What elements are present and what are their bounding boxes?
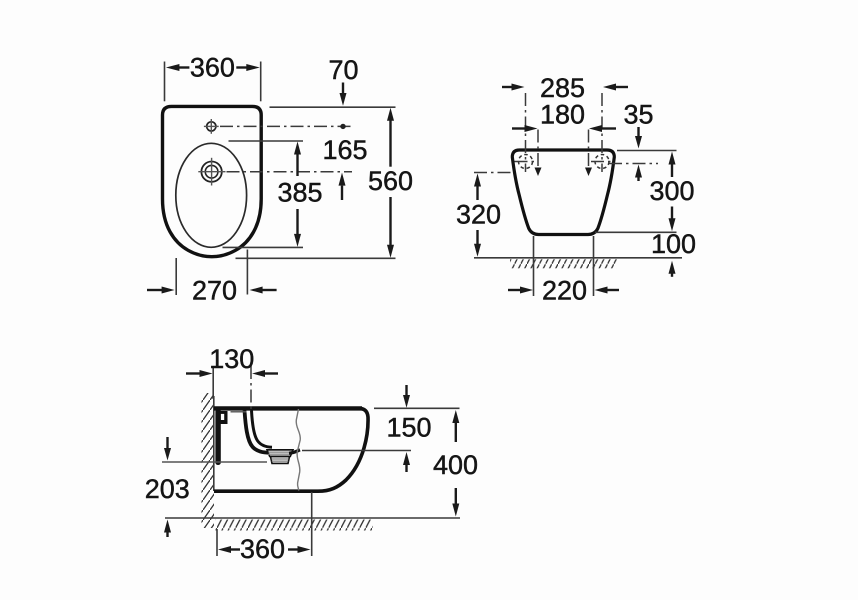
small mount hole [207,122,216,131]
dim 300 arrows [669,152,676,232]
dim 180 arrows [512,125,616,132]
svg-text:300: 300 [649,176,694,206]
dim 220 ext right [593,236,595,296]
dim 220 arrows [508,287,619,294]
dim 360 arrows [166,64,260,71]
ext line bowl top [229,140,304,142]
ext line tub top right [617,150,677,152]
dim 270 ext left [175,258,177,295]
dim 560 arrows [387,108,394,258]
svg-text:150: 150 [386,413,431,443]
svg-text:130: 130 [209,344,254,374]
dim 320 arrows [474,174,481,257]
small hole arrow left [535,168,542,177]
drain lower step [271,457,290,464]
wall face line [213,396,215,491]
dim 165 arrow [339,173,346,200]
svg-text:100: 100 [651,229,696,259]
svg-text:360: 360 [190,53,235,83]
svg-text:70: 70 [328,55,358,85]
dim 70 arrow [340,83,347,106]
centerline 180 right [588,130,590,167]
dim 203 arrows [164,437,171,537]
floor line side [165,517,460,519]
dim 130 centerline right [250,366,252,409]
floor hatch side [216,520,373,531]
svg-text:180: 180 [540,100,585,130]
rear tub outline [512,150,614,235]
side profile top edge [214,406,362,410]
dim 270 arrows outside [147,287,277,294]
plan outline [163,106,262,256]
side profile outline [214,408,368,491]
dim 35 arrows [635,127,642,181]
dim 100 arrow [669,261,676,277]
dim 130 ext left [212,366,214,399]
dim 150 arrows [403,385,410,472]
svg-text:320: 320 [456,200,501,230]
centerline 285 left [525,93,527,172]
ext line tub bottom right [595,231,677,233]
line 203 left [162,461,267,463]
floor line rear [474,257,682,259]
dim 270 ext right [246,250,248,295]
ext line top edge right [374,407,460,409]
svg-text:270: 270 [192,275,237,305]
svg-text:165: 165 [322,135,367,165]
mount hole left (dashed) [519,155,533,169]
svg-text:285: 285 [540,73,585,103]
drain upper step [267,450,293,457]
dim 360 ext left [216,529,218,556]
dim 360 ext right [260,62,262,102]
centerline faucet B [227,171,353,173]
plan bowl [176,143,247,247]
dim 285 arrows [502,84,628,91]
bracket [217,411,228,424]
svg-text:220: 220 [542,275,587,305]
dim 400 arrows [452,410,459,517]
dim 220 ext left [533,236,535,296]
svg-text:360: 360 [240,534,285,564]
rim lip line [231,411,247,413]
svg-text:560: 560 [368,166,413,196]
dim 360 ext right [311,492,313,556]
dim 385 arrows [294,142,301,247]
centerline hole A [220,125,352,127]
svg-text:35: 35 [623,100,653,130]
centerline 180 left [537,130,539,167]
small hole arrow right [585,168,592,177]
ext line bowl bottom right [302,450,411,452]
centerline 285 right [601,93,603,172]
centerline 320 left [474,172,514,174]
rear mounting bar [215,409,220,465]
floor hatch rear [510,259,617,268]
dim 360 ext left [164,62,166,102]
break line [296,409,300,491]
dim 130 arrows [186,370,278,377]
bowl wall inner curve [252,411,273,448]
bowl wall outer curve [245,411,271,453]
ext line top edge right [270,106,396,108]
bowl bottom right curve [289,450,300,453]
mount hole right (dashed) [595,155,609,169]
svg-text:385: 385 [277,178,322,208]
ext line bowl bottom [223,246,304,248]
faucet hole [201,162,221,182]
wall hatch [202,393,215,528]
centerline holes right [609,163,658,165]
svg-text:400: 400 [433,450,478,480]
ext line outline bottom [236,257,396,259]
dot terminator [340,124,345,129]
dim 360 arrows [218,546,311,553]
svg-text:203: 203 [145,474,190,504]
